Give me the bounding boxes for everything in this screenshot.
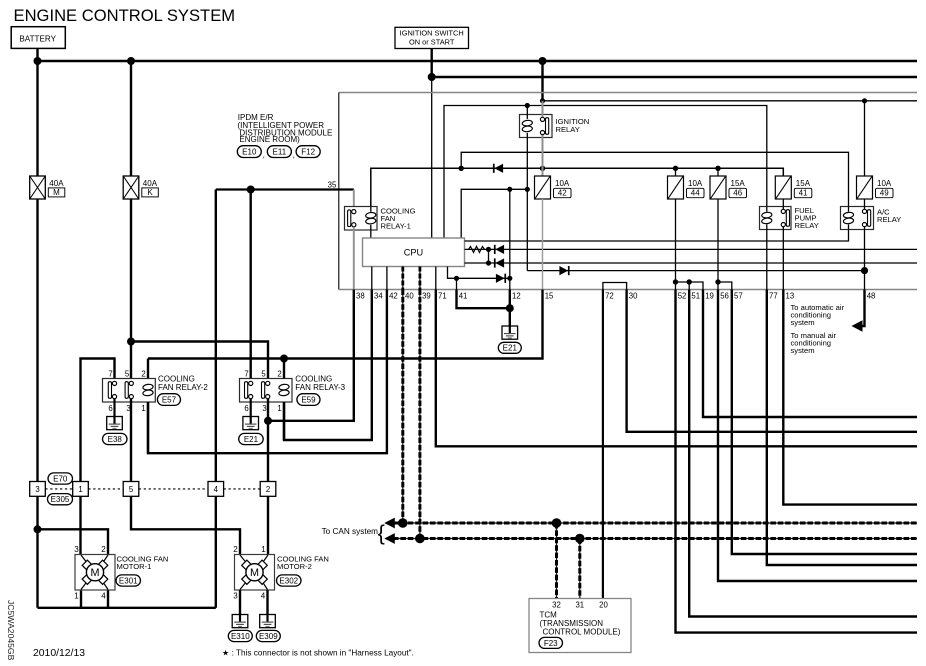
diode D5 [559, 266, 568, 275]
wire y=106 rail (CPU to ignition relay coil / fuel pump relay coil) [444, 106, 767, 239]
connector oval E302 [277, 575, 302, 586]
fuse 15A 46 (f46) [710, 176, 726, 199]
svg-text:19: 19 [705, 291, 714, 300]
wire y=152.3 rail (to A/C relay coil) [461, 152, 848, 206]
wire ignition-switch drop to CPU [431, 49, 433, 78]
svg-text:71: 71 [438, 291, 447, 300]
svg-text:★ : This connector is not show: ★ : This connector is not shown in "Harn… [222, 649, 414, 658]
svg-text:E59: E59 [301, 395, 316, 404]
svg-text:51: 51 [691, 291, 700, 300]
wire CPU right y=249.4 diode line [465, 248, 918, 250]
svg-text:RELAY: RELAY [556, 125, 580, 134]
wire relay-3 coil pin2 stub [283, 359, 285, 379]
CAN junction dots [398, 518, 408, 528]
fuse 10A 42 (f42) [535, 176, 551, 199]
wire relay-3 coil pin1 lower [283, 402, 285, 440]
svg-text:10A: 10A [877, 179, 892, 188]
wire pin 42 lower to relay-2 coil [148, 290, 387, 454]
CPU box [363, 238, 465, 267]
wire pin 39 CAN dashed [419, 290, 421, 539]
svg-text:35: 35 [328, 180, 337, 189]
svg-text:7: 7 [108, 369, 112, 378]
cooling fan relay-3 box [240, 379, 293, 403]
wire CPU right y=263 diode line [465, 262, 918, 264]
wire ignition relay contact path x=542.5 [542, 101, 544, 118]
fuel pump relay [760, 207, 792, 230]
svg-text:To CAN system: To CAN system [322, 527, 379, 536]
ground symbol [502, 326, 518, 339]
svg-text:E21: E21 [503, 344, 518, 353]
svg-text:E10: E10 [242, 147, 257, 156]
svg-text:CONTROL MODULE): CONTROL MODULE) [543, 628, 621, 637]
svg-text:42: 42 [389, 291, 398, 300]
svg-text:K: K [147, 188, 153, 197]
svg-text:6: 6 [244, 404, 248, 413]
connector oval E57 [157, 394, 180, 406]
wire relay-3 pin7 drop [249, 190, 251, 384]
wire relay-3 pin 3 down to motor-2 pin 1 [267, 399, 269, 555]
wire TCM pin 31 dashed [579, 539, 581, 599]
wire CPU pin41 branch y=278.3 [448, 267, 510, 279]
wire CPU pin 40 stub dashed [402, 267, 404, 290]
ignition bus wire (y=77) [432, 76, 917, 78]
wire pin 30 lower [627, 290, 917, 432]
wire pin35 long vertical x=215.8 [215, 190, 217, 608]
svg-text:39: 39 [422, 291, 431, 300]
wire motor-2 pin 3 to ground E310 [239, 590, 241, 615]
dashed links between connector boxes [45, 488, 72, 490]
svg-text:M: M [250, 567, 259, 579]
diode D4 [496, 274, 505, 283]
svg-text:20: 20 [599, 600, 608, 609]
svg-text:,: , [263, 151, 265, 160]
svg-text:6: 6 [108, 404, 112, 413]
cooling fan motor MOTOR-1 box [75, 555, 115, 591]
wire pin 56 lower [718, 290, 917, 582]
svg-text:12: 12 [512, 291, 521, 300]
svg-text:F23: F23 [544, 639, 558, 648]
wire pin 41 stub [456, 278, 458, 289]
svg-text:15A: 15A [731, 179, 746, 188]
wire relay-2 pin 3 to motor-2 pin 2 [131, 399, 240, 555]
wire bus1 drop at x=543 to y=100.8 rail [541, 61, 543, 101]
svg-text:1: 1 [277, 404, 281, 413]
connector oval E301 [116, 575, 141, 586]
svg-text:ON or START: ON or START [409, 37, 455, 46]
wire TCM pin 32 dashed [556, 523, 558, 599]
svg-text:CPU: CPU [404, 248, 423, 258]
svg-text:2: 2 [266, 485, 270, 494]
wire fusible link M drop [36, 61, 38, 176]
wire pin 13 lower [783, 290, 917, 505]
svg-text:52: 52 [678, 291, 687, 300]
wire relay-3 pin 6 to ground [250, 399, 252, 417]
svg-text:E11: E11 [273, 147, 287, 156]
fuse 10A 49 (f49) [857, 176, 873, 199]
connector oval E70 [48, 473, 73, 484]
svg-text:57: 57 [734, 291, 743, 300]
svg-text:40: 40 [405, 291, 414, 300]
TCM box [529, 599, 631, 653]
IPDM E/R module box [339, 92, 917, 94]
wire motor-1 pin 4 stub [107, 590, 109, 608]
svg-text:41: 41 [799, 189, 808, 198]
fuse 10A 44 (f44) [668, 176, 684, 199]
ground symbol [232, 615, 248, 628]
svg-text:RELAY: RELAY [795, 221, 819, 230]
wire fuse44 top stub [675, 168, 677, 176]
svg-text:15: 15 [545, 291, 554, 300]
svg-text:56: 56 [720, 291, 729, 300]
svg-text:F12: F12 [301, 147, 315, 156]
wire CPU pin 39 stub dashed [419, 267, 421, 290]
svg-text:2: 2 [101, 545, 106, 554]
wire pin 52 lower [676, 290, 918, 633]
CAN line 2 dashed with arrow [384, 533, 395, 544]
link between diode lines [488, 249, 490, 263]
svg-text:,: , [293, 151, 295, 160]
wire relay-2 pin 6 to ground [113, 399, 115, 417]
wire relay1 contact bottom = pin 38 upper [353, 227, 355, 290]
ignition relay U1 [520, 115, 553, 138]
CAN line 1 dashed with arrow [384, 518, 395, 529]
cooling fan relay-1 [345, 207, 378, 231]
cooling fan relay-2 box [103, 379, 156, 403]
wire relay1 coil bottom to CPU [370, 230, 372, 238]
svg-text:10A: 10A [688, 179, 703, 188]
wire motor-1 pin 3 drop [79, 496, 81, 554]
wire branch to motor-1 pin 2 [38, 529, 109, 554]
fusible link 40A K [123, 176, 139, 199]
svg-text:46: 46 [733, 189, 742, 198]
svg-text:40A: 40A [49, 179, 64, 188]
connector oval E38 [103, 433, 128, 444]
wire battery box drop [36, 48, 38, 61]
wire pin 48 lower with arrow to A/C system [862, 290, 865, 327]
svg-text:1: 1 [74, 592, 79, 601]
wire relay-2 coil pin1 lower [147, 402, 149, 453]
wire CPU pin 34 stub [371, 267, 373, 290]
svg-text:5: 5 [125, 369, 130, 378]
svg-text:ENGINE CONTROL SYSTEM: ENGINE CONTROL SYSTEM [14, 6, 236, 25]
svg-text:E57: E57 [162, 395, 177, 404]
wire IPDM pin 35 line (y=189.5) [216, 188, 354, 190]
connector oval E59 [297, 394, 320, 406]
svg-text:40A: 40A [143, 179, 158, 188]
svg-text:E309: E309 [259, 632, 278, 641]
svg-text:2: 2 [277, 369, 281, 378]
fuse 15A 41 (f41) [775, 176, 791, 199]
fusible link 40A M [30, 176, 46, 199]
svg-text:48: 48 [867, 291, 876, 300]
wire y=168.3 fuse feed rail [371, 168, 784, 206]
wire pin 41 lower [457, 290, 510, 309]
svg-text:system: system [791, 318, 815, 327]
svg-text:2: 2 [233, 545, 238, 554]
svg-text:5: 5 [261, 369, 266, 378]
ground symbol [107, 417, 123, 430]
wire A/C contact bottom to pin 48 [864, 227, 866, 290]
svg-text:4: 4 [214, 485, 219, 494]
diode D3 [495, 258, 504, 267]
BATTERY box [11, 27, 65, 49]
wire pin 57 lower [732, 290, 917, 555]
svg-text:72: 72 [605, 291, 614, 300]
wire CPU right y=241 to A/C relay coil [465, 230, 849, 242]
wire bottom return y=607.8 [38, 607, 216, 609]
wire pin 15 stub [542, 199, 544, 290]
svg-text:BATTERY: BATTERY [19, 34, 56, 43]
svg-text:2010/12/13: 2010/12/13 [33, 648, 85, 659]
connector oval E21 (pin12 ground) [498, 342, 521, 353]
wire ignition coil y=270.6 line to pin48 node [527, 270, 864, 272]
wire pin 72 lower to TCM pin 20 [602, 290, 604, 599]
svg-text:1: 1 [78, 485, 82, 494]
svg-text:JC5WA2045GB: JC5WA2045GB [6, 600, 16, 661]
wire fuel pump coil bottom (pin 77 upper) [766, 230, 768, 290]
svg-text:3: 3 [74, 545, 79, 554]
resistor R1 [469, 246, 485, 252]
connector ovals E10 E11 F12 [237, 146, 261, 158]
svg-text:ENGINE ROOM): ENGINE ROOM) [239, 135, 300, 144]
svg-text:15A: 15A [796, 179, 811, 188]
svg-text:77: 77 [769, 291, 778, 300]
wire pin 12 lower to ground [509, 290, 511, 327]
svg-text:system: system [791, 346, 815, 355]
diode D2 [495, 245, 504, 254]
svg-text:4: 4 [101, 592, 106, 601]
svg-text:3: 3 [233, 592, 238, 601]
svg-text:RELAY-1: RELAY-1 [381, 222, 411, 231]
svg-text:42: 42 [558, 189, 567, 198]
wire fusible link K drop [130, 61, 132, 176]
connector oval E309 [256, 630, 280, 641]
wire pin 34 lower to relay-3 coil [284, 290, 372, 441]
ground symbol [260, 615, 276, 628]
wire CPU pin 71 stub [435, 267, 437, 290]
connector oval E305 [48, 494, 73, 505]
svg-text:MOTOR-2: MOTOR-2 [277, 562, 312, 571]
wire pin 77 lower [767, 290, 917, 566]
wire pin 40 CAN dashed [402, 290, 404, 524]
svg-text:RELAY: RELAY [877, 215, 901, 224]
wire fuse K to relay-2 pin 5 and relay-3 pin 5 [130, 199, 132, 384]
wire fuse49 drop [864, 101, 866, 176]
IGNITION SWITCH box [395, 27, 469, 48]
svg-text:FAN RELAY-3: FAN RELAY-3 [295, 383, 345, 392]
svg-text:41: 41 [459, 291, 468, 300]
svg-text:1: 1 [141, 404, 145, 413]
wire pin 51 lower [689, 290, 917, 617]
wire pin 12 stub [509, 278, 511, 289]
svg-text:10A: 10A [555, 179, 570, 188]
connector oval E21 (relay-3 ground) [239, 433, 264, 444]
svg-text:13: 13 [786, 291, 795, 300]
junction dots bus area [34, 57, 42, 65]
connector oval E310 [228, 630, 252, 641]
svg-text:31: 31 [575, 600, 584, 609]
wire pin12 upper vertical [509, 189, 511, 278]
staple pins 72-30 [603, 283, 627, 290]
svg-text:E310: E310 [231, 632, 250, 641]
svg-text:7: 7 [244, 369, 248, 378]
wire CPU to ign-coil node (y=189.3) [461, 189, 527, 238]
wire fuel pump contact bottom (pin 13 upper) [782, 227, 784, 290]
wire pin 71 lower [436, 290, 917, 447]
svg-text:E301: E301 [119, 576, 138, 585]
svg-text:MOTOR-1: MOTOR-1 [117, 562, 152, 571]
wire motor-1 pin 1 stub [80, 590, 82, 608]
svg-text:30: 30 [629, 291, 638, 300]
wire fuse46 top stub [717, 168, 719, 176]
wire battery line to connector 3 and motor-1 [36, 199, 38, 482]
ground symbol [243, 417, 259, 430]
svg-text:38: 38 [356, 291, 365, 300]
svg-text:M: M [53, 188, 60, 197]
svg-text:FAN RELAY-2: FAN RELAY-2 [158, 383, 208, 392]
svg-text:4: 4 [261, 592, 266, 601]
svg-text:E38: E38 [108, 435, 123, 444]
inline connector row boxes [30, 482, 46, 497]
wire relay-2 coil pin2 stub [147, 359, 149, 379]
wire y=100.8 rail (battery feed to fuse 49) [543, 100, 918, 102]
svg-text:{: { [378, 521, 385, 545]
wire CPU pin 42 stub [386, 267, 388, 290]
cooling fan motor MOTOR-2 box [235, 555, 275, 591]
wire pin 38 lower [268, 290, 354, 421]
svg-text:E302: E302 [279, 576, 298, 585]
svg-text:1: 1 [261, 545, 266, 554]
A/C relay [841, 207, 874, 230]
diode D1 on fuse rail [494, 164, 503, 173]
svg-text:44: 44 [691, 189, 700, 198]
wire pin 15 lower to coil rail [148, 290, 543, 359]
wire pin 19 lower [703, 290, 917, 418]
svg-text:E70: E70 [53, 474, 68, 483]
wire motor-2 pin 4 to ground E309 [266, 590, 268, 615]
svg-text:E21: E21 [244, 435, 259, 444]
wire relay-2 pin 7 feed [81, 359, 115, 482]
svg-text:32: 32 [552, 600, 561, 609]
svg-text:49: 49 [880, 189, 889, 198]
svg-text:5: 5 [129, 485, 134, 494]
svg-text:3: 3 [262, 404, 266, 413]
connector oval F23 [539, 637, 563, 648]
svg-text:3: 3 [35, 485, 39, 494]
bridge pins 56-57 [717, 199, 719, 290]
battery bus wire (y=61) [38, 60, 918, 62]
svg-text:34: 34 [374, 291, 383, 300]
svg-text:E305: E305 [51, 495, 70, 504]
wire ignition relay coil bottom to y=270.6 [526, 138, 528, 271]
svg-text:M: M [91, 567, 100, 579]
bridge pins 52-51-19 [675, 199, 677, 290]
svg-text:IGNITION SWITCH: IGNITION SWITCH [400, 29, 464, 38]
svg-text:2: 2 [141, 369, 145, 378]
